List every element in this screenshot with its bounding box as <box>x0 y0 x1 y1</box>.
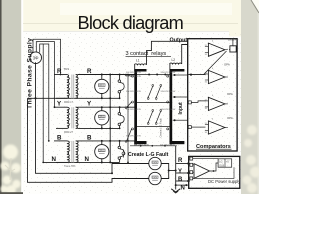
svg-text:OPA: OPA <box>224 63 230 67</box>
svg-text:N: N <box>52 156 57 163</box>
svg-text:B: B <box>57 134 62 141</box>
svg-text:CRO: CRO <box>99 115 104 118</box>
svg-text:VMS: VMS <box>152 177 157 179</box>
svg-text:TR1: TR1 <box>64 67 70 71</box>
svg-text:Y: Y <box>178 169 182 175</box>
svg-text:MMZ-1T: MMZ-1T <box>64 101 74 104</box>
svg-text:LM324: LM324 <box>228 38 236 42</box>
svg-text:Output: Output <box>170 37 188 43</box>
svg-text:CRO: CRO <box>99 149 104 152</box>
svg-text:OPA: OPA <box>227 116 233 120</box>
svg-text:Block diagram: Block diagram <box>78 13 184 33</box>
svg-text:B: B <box>87 134 92 141</box>
svg-text:L2: L2 <box>172 58 176 62</box>
svg-text:SW-DPDT-NOW: SW-DPDT-NOW <box>161 72 176 74</box>
svg-text:Input: Input <box>178 102 184 115</box>
svg-text:LG: LG <box>219 161 222 164</box>
svg-text:Create L-G Fault: Create L-G Fault <box>159 118 163 138</box>
svg-text:3Φ: 3Φ <box>33 55 39 60</box>
svg-text:L1: L1 <box>136 59 140 63</box>
svg-text:SW-DPDT-NOW: SW-DPDT-NOW <box>126 91 141 93</box>
svg-text:SW-DPDT-NOW: SW-DPDT-NOW <box>126 136 141 138</box>
svg-text:SW-DPDT-NOW: SW-DPDT-NOW <box>161 109 176 111</box>
svg-text:SW-DPDT-NOW: SW-DPDT-NOW <box>126 76 141 78</box>
svg-text:SW-DPDT-NOW: SW-DPDT-NOW <box>161 91 176 93</box>
svg-text:Trans-TR3: Trans-TR3 <box>64 165 76 168</box>
svg-text:B: B <box>178 177 183 183</box>
svg-text:GLB: GLB <box>219 164 224 167</box>
svg-text:R: R <box>57 68 62 75</box>
svg-text:SW-DPDT-NOW: SW-DPDT-NOW <box>160 144 175 146</box>
svg-text:VMS: VMS <box>152 162 157 164</box>
svg-text:SW-DPDT-NOW: SW-DPDT-NOW <box>126 72 141 74</box>
svg-text:OPA: OPA <box>227 92 233 96</box>
svg-text:R: R <box>87 68 92 75</box>
svg-text:CRO: CRO <box>99 84 104 87</box>
svg-text:N: N <box>181 186 185 192</box>
svg-text:SW-DPDT-NOW: SW-DPDT-NOW <box>134 144 149 146</box>
svg-text:N: N <box>85 156 90 163</box>
svg-text:Create L-G Fault: Create L-G Fault <box>128 152 169 158</box>
svg-text:DC Power supply: DC Power supply <box>208 179 241 184</box>
svg-text:MMZ-2T: MMZ-2T <box>64 131 74 134</box>
svg-text:SW-DPDT-NOW: SW-DPDT-NOW <box>126 109 141 111</box>
